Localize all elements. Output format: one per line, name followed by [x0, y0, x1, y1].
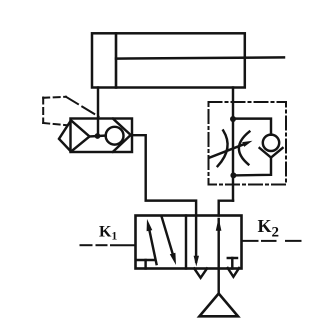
svg-text:K1: K1	[99, 224, 117, 243]
svg-text:K2: K2	[258, 216, 280, 241]
